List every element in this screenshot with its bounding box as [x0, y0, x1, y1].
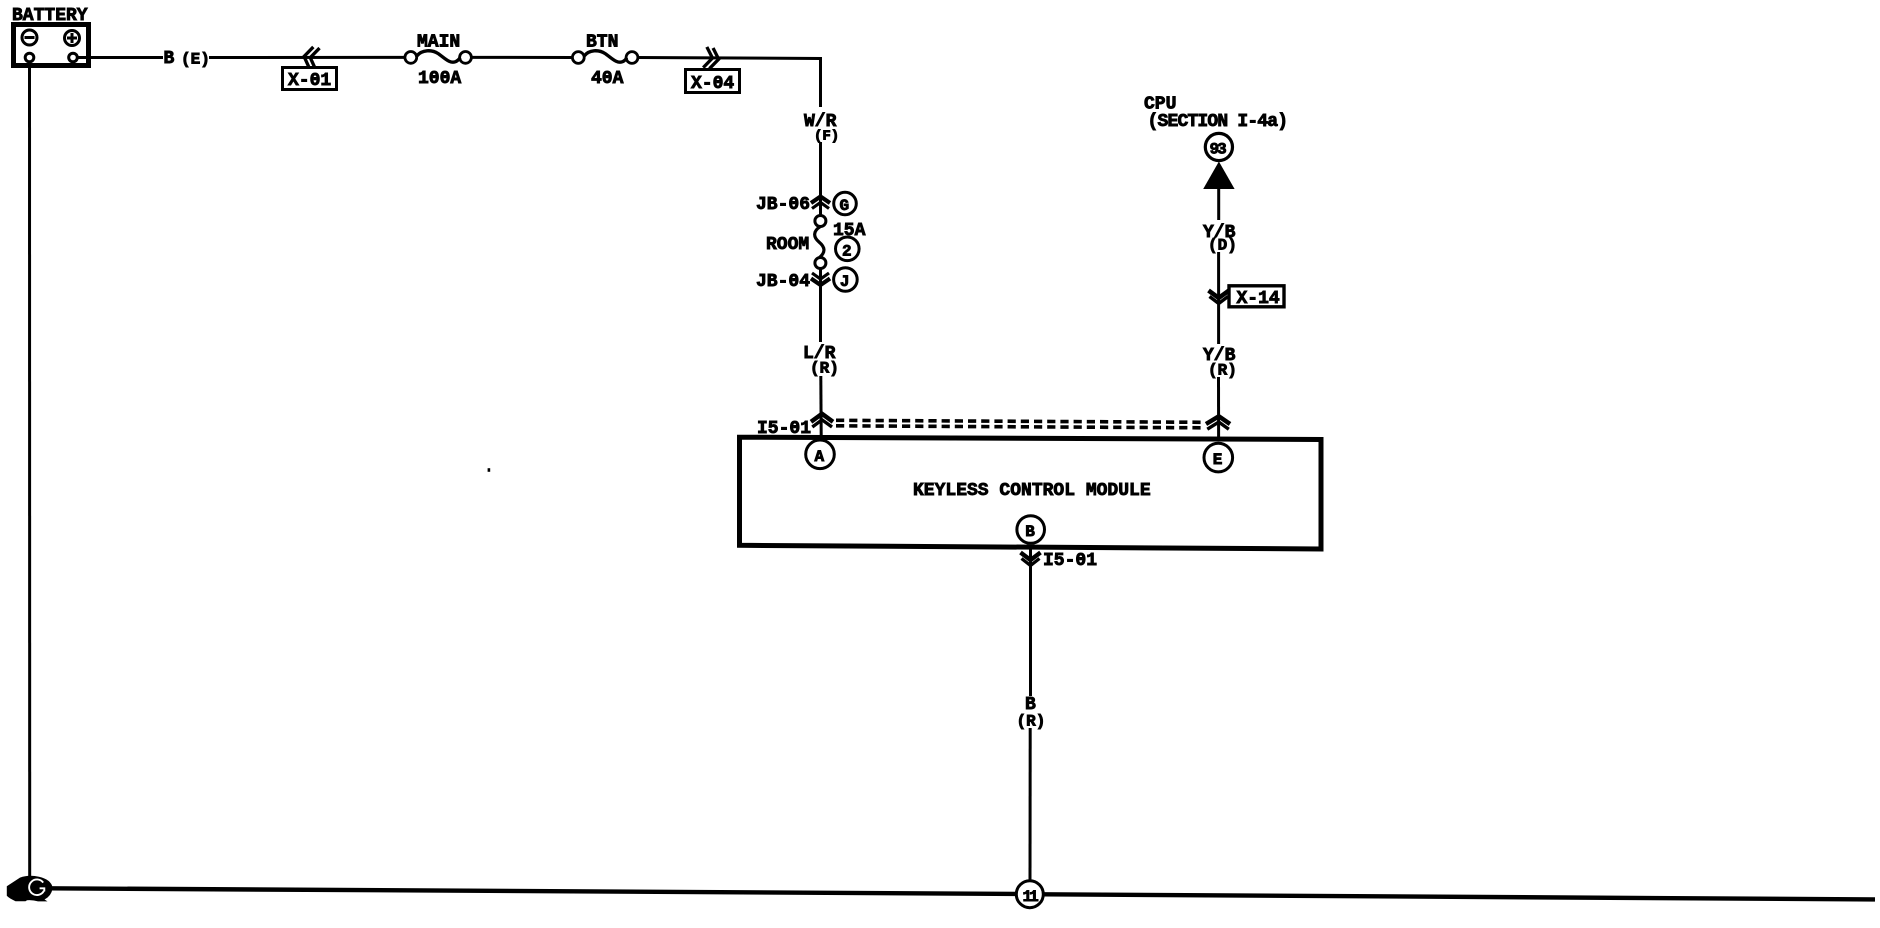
connector X-01 box label	[283, 68, 337, 92]
wire B (R) label to ground bus	[1029, 728, 1032, 880]
wire W/R label through junction JB-06 to fuse ROOM	[819, 142, 822, 216]
ground symbol G (body ground)	[7, 876, 53, 902]
arrow to CPU (filled triangle)	[1203, 162, 1234, 190]
connector I5-01 arrow below pin B	[1021, 553, 1041, 566]
svg-text:(E): (E)	[181, 51, 210, 69]
connector X-04 chevron	[703, 47, 720, 70]
ground bus wire right segment	[1044, 894, 1876, 899]
svg-text:E: E	[1213, 451, 1223, 469]
connector arrow at pin E	[1206, 416, 1230, 429]
pin B	[1017, 516, 1045, 544]
fuse ROOM 15A	[815, 216, 826, 269]
battery B1	[14, 25, 89, 66]
svg-text:93: 93	[1210, 141, 1227, 159]
svg-text:JB-04: JB-04	[756, 272, 810, 292]
svg-text:J: J	[840, 273, 850, 291]
svg-text:X-01: X-01	[288, 71, 331, 91]
svg-text:2: 2	[842, 243, 852, 261]
pin A	[806, 440, 835, 469]
pin E	[1204, 443, 1233, 472]
ground bus wire left segment	[48, 888, 1016, 894]
wire Y/B (R) label to pin E arrow	[1217, 377, 1220, 439]
scan speck	[488, 468, 491, 472]
wire triangle to Y/B (D) label	[1217, 189, 1220, 220]
junction JB-06 arrow	[811, 197, 830, 209]
wire fuse BTN to corner, down to W/R label	[638, 58, 821, 108]
svg-text:X-04: X-04	[691, 74, 734, 94]
wire fuse MAIN to fuse BTN	[472, 56, 573, 59]
svg-text:(R): (R)	[1208, 362, 1237, 380]
wire pin B down to B (R) label	[1029, 548, 1032, 696]
svg-text:X-14: X-14	[1237, 289, 1280, 309]
wire battery negative down to ground	[28, 62, 31, 878]
junction JB-04 arrow	[811, 273, 830, 285]
svg-text:A: A	[815, 448, 825, 466]
svg-text:I5-01: I5-01	[1043, 551, 1097, 571]
keyless control module box U1	[740, 437, 1322, 549]
svg-text:(R): (R)	[1017, 713, 1046, 731]
connector X-01 chevron	[302, 46, 319, 70]
svg-text:BTN: BTN	[586, 33, 618, 53]
wire L/R label to connector I5-01 pin A	[819, 376, 822, 437]
svg-text:(D): (D)	[1208, 237, 1237, 255]
connector I5-01 arrow at pin A	[811, 414, 833, 427]
ground node 11	[1016, 881, 1043, 908]
svg-text:G: G	[840, 197, 850, 215]
wire B (E) label to fuse MAIN	[209, 56, 405, 59]
svg-text:100A: 100A	[418, 69, 461, 89]
svg-text:KEYLESS CONTROL MODULE: KEYLESS CONTROL MODULE	[913, 481, 1151, 501]
svg-text:40A: 40A	[591, 69, 624, 89]
node 2	[836, 237, 860, 261]
node 93 (to CPU)	[1205, 133, 1232, 160]
svg-text:ROOM: ROOM	[766, 235, 809, 255]
node G	[834, 192, 857, 215]
svg-text:(F): (F)	[814, 129, 839, 145]
connector X-14 chevron	[1209, 291, 1230, 304]
svg-text:(R): (R)	[810, 360, 839, 378]
dashed bus pair between A and E	[836, 420, 1204, 428]
fuse MAIN 100A	[405, 51, 472, 64]
wire Y/B (D) label through connector X-14 to Y/B (R) label	[1217, 252, 1220, 344]
svg-text:B: B	[164, 49, 175, 69]
svg-text:B: B	[1025, 523, 1035, 541]
connector X-14 box label	[1229, 286, 1284, 309]
svg-text:(SECTION I-4a): (SECTION I-4a)	[1148, 112, 1288, 132]
svg-text:JB-06: JB-06	[756, 195, 810, 215]
svg-text:MAIN: MAIN	[417, 33, 460, 53]
node J	[834, 268, 858, 292]
wire fuse ROOM through junction JB-04 to L/R label	[819, 268, 822, 342]
connector X-04 box label	[686, 70, 740, 95]
wire battery positive to B (E) label	[78, 56, 164, 59]
fuse BTN 40A	[572, 51, 638, 64]
